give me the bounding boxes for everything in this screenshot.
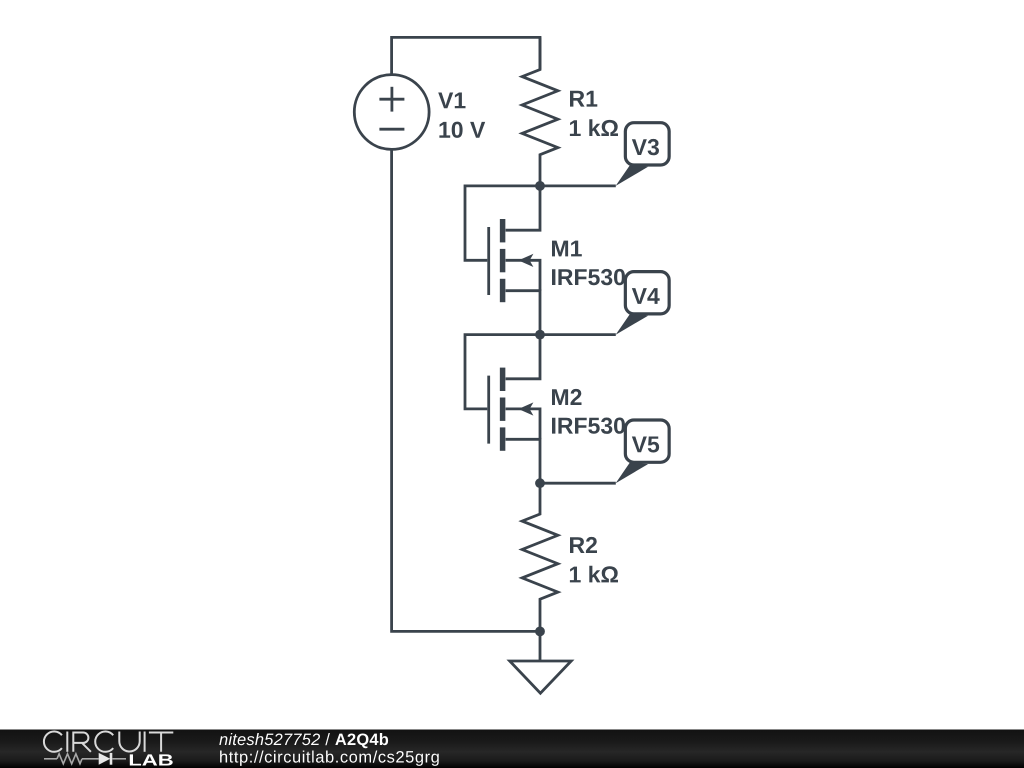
transistor M1 IRF530 [489, 186, 540, 335]
M2 drain terminal [506, 335, 540, 379]
wire top rail from V1 plus to R1 top [392, 37, 540, 75]
M2 body terminal [506, 409, 540, 439]
label R2 1 kOhm [570, 537, 618, 583]
resistor R1 [522, 37, 558, 185]
M1 gate bar [487, 227, 490, 295]
resistor R2 [522, 483, 558, 631]
M1 body terminal [506, 260, 540, 290]
logo CIRCUIT [44, 732, 173, 752]
voltage source V1 [354, 75, 429, 150]
label M2 IRF530 [552, 389, 625, 434]
logo LAB [130, 754, 173, 765]
flag V4 [616, 272, 670, 335]
wire M1 gate loop [465, 186, 540, 260]
label M1 IRF530 [552, 241, 625, 286]
M1 body arrow [518, 254, 533, 267]
M1 drain terminal [506, 186, 540, 230]
V1 minus sign [379, 128, 404, 131]
footer url line [220, 751, 439, 766]
wire M2 gate loop [465, 335, 540, 409]
node V3 junction dot [535, 181, 545, 191]
wire node to V5 flag [540, 482, 616, 485]
M2 channel dashes [500, 368, 506, 451]
M2 body arrow [518, 402, 533, 415]
wire node to V3 flag [540, 184, 616, 187]
footer author line [219, 733, 388, 748]
flag V3 [616, 123, 670, 186]
M1 source terminal [506, 291, 540, 335]
M2 gate bar [487, 376, 490, 444]
transistor M2 IRF530 [489, 335, 540, 484]
ground [510, 661, 572, 693]
V1 plus sign [379, 98, 404, 101]
label V1 10 V [438, 93, 485, 138]
M1 channel dashes [500, 219, 506, 302]
wire node to V4 flag [540, 333, 616, 336]
wire left rail and bottom return wire [392, 149, 540, 631]
node V4 junction dot [535, 330, 545, 340]
logo mini circuit [44, 753, 126, 765]
node ground junction dot [535, 627, 545, 637]
node V5 junction dot [535, 478, 545, 488]
label R1 1 kOhm [570, 91, 618, 136]
wire to ground [539, 631, 542, 661]
footer bar [0, 730, 1024, 768]
M2 source terminal [506, 439, 540, 483]
flag V5 [616, 420, 670, 483]
